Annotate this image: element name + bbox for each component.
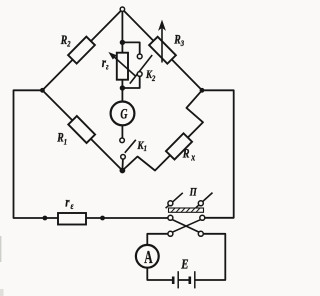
label K1 [137,139,148,153]
resistor Rx [166,133,192,159]
commutator P hatched bar [169,208,204,212]
node top vertex (open circle) [120,7,124,11]
scan smudge left edge [0,236,1,262]
wire outer left loop [14,90,59,218]
label R1 [56,132,67,147]
galvanometer G [111,102,135,126]
battery E plate 2 short [189,277,192,285]
switch K2 blade [130,55,152,84]
label P (commutator) [189,187,198,199]
rheostat r_g box [117,53,128,80]
wire arm top-right (T to R) [122,9,202,90]
label r_g [102,55,109,72]
resistor R2 [68,37,95,64]
svg-text:П: П [189,187,198,199]
resistor R1 [68,116,95,143]
svg-text:G: G [120,106,127,122]
ammeter A [136,245,159,268]
label E [180,256,188,272]
node left vertex [40,88,45,93]
battery E plate 2 long [194,271,196,288]
wire r_e to commutator [86,217,168,219]
commutator P blade left [166,193,183,208]
wire K1 to bottom vertex [121,157,124,171]
commutator P cross wire 2 [172,220,200,233]
wire J2 to galvanometer [121,88,123,102]
commutator P cross wire 1 [172,220,199,233]
wire arm top-left (T to L) [42,9,122,90]
commutator P contact bottom-left [168,231,173,236]
node J2 [120,85,125,90]
battery E plate 1 long [177,271,179,288]
battery E plate 1 short [172,277,175,285]
svg-text:E: E [180,256,188,272]
commutator P contact bottom-right [198,231,203,236]
switch K1 contact bottom [121,155,126,160]
switch K2 contact top [137,54,142,59]
commutator P contact mid-left [168,215,173,220]
commutator P contact top-right [198,201,203,206]
commutator P blade right [196,193,213,208]
wire commutator to ammeter [147,234,168,245]
commutator P contact mid-right [200,215,205,220]
node bottom vertex [120,168,126,174]
wire outer right loop [202,90,234,218]
wire K2 branch upper [122,42,139,56]
resistor r_e (series resistor) [58,213,86,225]
wire J1 to J2 through rheostat [121,42,123,88]
wire K2 branch lower [122,74,139,88]
node J1 [120,40,125,45]
label R2 [60,34,71,49]
label r_e [65,194,74,211]
switch K1 contact top [120,138,125,143]
label K2 [145,69,155,83]
arrow of R3 [159,21,166,63]
label R3 [173,33,184,48]
wire ammeter to battery [147,268,172,280]
wire arm bottom-left (L to B) [42,90,122,170]
switch K2 contact bottom [137,72,142,77]
svg-text:A: A [144,249,152,268]
wire battery cell connector [179,279,189,281]
wire center vertical T to J1 [121,11,123,42]
node right vertex [200,88,205,93]
arrow of rheostat r_g [109,53,136,77]
wire G to K1 [121,125,123,140]
commutator P contact top-left [168,201,173,206]
node on bottom wire right of r_e [100,216,105,221]
switch K1 blade [125,140,136,153]
node on bottom wire left of r_e [43,216,48,221]
label Rx [182,146,196,163]
resistor R3 (variable) [149,37,176,64]
wire battery to commutator right [195,234,225,280]
wire zigzag arm bottom-right (B to R) [122,90,203,170]
